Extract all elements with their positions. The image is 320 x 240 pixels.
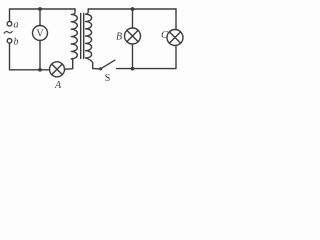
node: voltmeter top junction [38,7,42,11]
node: lamp B top junction [131,7,135,11]
transformer T1 secondary coil [86,9,93,69]
wire lamp B branch bottom [132,44,134,69]
wire voltmeter branch bottom [39,41,41,70]
wire secondary bottom to switch pivot [93,68,99,70]
svg-text:S: S [105,73,111,84]
wire voltmeter branch top [39,9,41,26]
wire switch contact to lamp B junction [117,68,133,70]
AC source tilde [4,31,12,33]
wire lamp B branch top [132,9,134,28]
wire from terminal b down and along bottom to lamp A [10,43,50,70]
transformer T1 primary coil [71,9,77,60]
terminal a [7,22,12,27]
wire top-left: source a up and across to primary [10,9,76,21]
svg-text:C: C [161,30,169,41]
lamp C [167,30,183,46]
switch S pivot [99,67,102,70]
wire top secondary across [88,8,176,10]
lamp A [50,62,65,77]
node: voltmeter bottom junction [38,68,42,72]
wire bottom right to lamp C [133,46,177,69]
svg-text:b: b [14,37,19,48]
transformer T1 core [81,14,84,59]
svg-text:A: A [54,80,62,91]
svg-text:a: a [14,20,19,31]
node: lamp B bottom junction [131,67,135,71]
wire lamp A to primary coil bottom [65,60,73,70]
wire lamp C top to top-right corner [175,9,177,30]
terminal b [7,39,12,44]
svg-text:V: V [36,29,44,40]
svg-text:B: B [116,32,122,43]
lamp B [125,28,141,44]
switch S blade (open) [102,60,115,68]
voltmeter V1 [33,26,48,41]
